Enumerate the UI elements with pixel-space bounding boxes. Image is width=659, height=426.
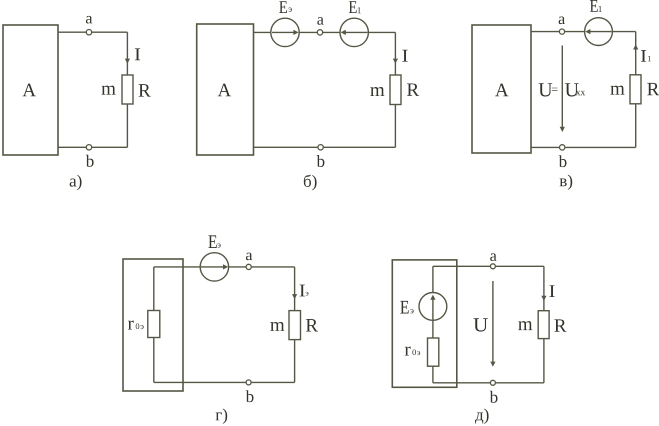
label E_e: [279, 1, 287, 13]
resistor R (multiplied by m): [289, 311, 301, 340]
label E_e subscript: [410, 309, 413, 313]
label r_0e subscript e: [141, 325, 144, 329]
wire: resistor to bottom corner: [126, 104, 128, 147]
label Uxx subscript: [576, 91, 585, 95]
terminal b: [560, 145, 565, 150]
wire: top: [254, 31, 396, 33]
emf arrow of E_e (points up): [432, 299, 434, 320]
label I: [402, 50, 407, 62]
resistor R (multiplied by m): [390, 75, 401, 105]
wire: right branch down: [543, 266, 545, 310]
terminal a: [246, 264, 251, 269]
wire: bottom: [154, 381, 295, 383]
label E_1: [590, 0, 598, 12]
label r_0e subscript e: [417, 351, 420, 355]
voltage arrow U (a to b, points down): [492, 281, 494, 363]
emf arrow of E_1 (points left): [345, 31, 368, 33]
label I_e subscript: [306, 292, 309, 296]
terminal b: [86, 145, 91, 150]
current arrow I_e: [292, 294, 297, 299]
wire: right branch down: [294, 267, 296, 311]
terminal a: [490, 264, 495, 269]
label R: [139, 84, 151, 96]
caption b): [304, 175, 317, 191]
label I_e: [300, 285, 305, 297]
wire: right branch down to resistor: [126, 32, 128, 75]
current arrow I: [393, 59, 398, 64]
box A: active two-terminal network (circuit v): [472, 25, 531, 153]
wire: bottom: [433, 382, 544, 384]
wire: resistor to bottom corner: [543, 339, 545, 383]
source E_1 (circle): [585, 18, 613, 46]
wire: bottom: [531, 146, 636, 148]
terminal b: [490, 380, 495, 385]
node b label: [86, 155, 94, 167]
wire: right branch: [635, 32, 637, 75]
emf arrow of E_e (points right): [272, 31, 294, 33]
label A: [495, 84, 508, 97]
terminal a: [86, 30, 91, 35]
resistor R (multiplied by m): [538, 311, 549, 339]
label E_e subscript: [217, 243, 220, 247]
wire: internal branch vertical: [432, 266, 434, 383]
node a label: [559, 16, 565, 24]
wire: top: [531, 31, 636, 33]
node a label: [86, 16, 92, 24]
wire: resistor to bottom corner: [394, 105, 396, 148]
wire: top, box to corner: [58, 31, 127, 33]
resistor R (multiplied by m): [630, 75, 641, 104]
node b label: [246, 390, 254, 402]
label r_0e: [128, 321, 134, 330]
source E_e (circle): [271, 18, 299, 46]
resistor R (multiplied by m): [122, 75, 133, 104]
wire: top: [433, 265, 544, 267]
current arrow I: [541, 296, 546, 301]
label m: [610, 86, 624, 95]
emf arrow of E_1 (points left): [590, 31, 612, 33]
label R: [554, 319, 566, 331]
label R: [407, 83, 419, 95]
label m: [518, 321, 532, 330]
label R: [647, 83, 659, 95]
terminal a: [317, 30, 322, 35]
label I: [549, 285, 554, 297]
box A: active two-terminal network (circuit b): [197, 24, 254, 155]
wire: resistor to bottom corner: [294, 340, 296, 383]
emf arrow of E_e (points right): [201, 266, 224, 268]
box: equivalent generator outline (circuit d): [392, 260, 457, 387]
label A: [218, 84, 231, 97]
label E_1 subscript: [358, 7, 361, 13]
wire: right branch down: [394, 32, 396, 75]
label r_0e subscript 0: [136, 323, 140, 329]
terminal b: [246, 380, 251, 385]
wire: internal branch vertical: [153, 267, 155, 383]
current arrow I: [125, 59, 130, 64]
current arrow I_1 (points up): [633, 44, 638, 49]
wire: top: [154, 266, 295, 268]
source E_e (circle): [419, 293, 447, 321]
source E_1 (circle): [340, 18, 368, 46]
resistor r_0e (internal resistance): [428, 338, 439, 366]
label m: [370, 87, 384, 96]
node a label: [246, 253, 252, 261]
label E_e: [400, 301, 408, 314]
wire: resistor to bottom corner: [635, 104, 637, 148]
label r_0e: [405, 347, 411, 356]
node b label: [559, 155, 567, 167]
label E_e: [208, 235, 216, 248]
label r_0e subscript 0: [412, 349, 416, 355]
label I_1 subscript: [648, 56, 651, 61]
wire: bottom: [254, 146, 396, 148]
label U: [474, 318, 488, 331]
label E_1 subscript: [599, 6, 602, 12]
node b label: [490, 391, 498, 403]
label A: [23, 84, 36, 97]
label m: [102, 86, 116, 95]
box: equivalent generator outline (circuit g): [123, 259, 183, 391]
wire: bottom, corner to box: [58, 146, 127, 148]
label I: [135, 48, 140, 60]
source E_e (circle): [200, 253, 228, 281]
caption a): [70, 175, 82, 190]
label E_1: [349, 1, 357, 13]
label E_e subscript: [289, 8, 292, 12]
label m: [270, 322, 284, 331]
label R: [306, 319, 318, 331]
node a label: [490, 253, 496, 261]
label Uxx: [565, 83, 579, 96]
resistor r_0e (internal resistance): [148, 311, 160, 338]
label U= equals sign: [552, 88, 558, 91]
caption d): [475, 409, 489, 424]
label U=: [539, 83, 553, 96]
caption g): [216, 409, 228, 424]
terminal a: [559, 29, 564, 34]
voltage arrow U (a to b, points down): [561, 46, 563, 129]
box A: active two-terminal network (circuit a): [3, 25, 58, 155]
label I_1: [641, 50, 646, 62]
terminal b: [318, 145, 323, 150]
caption v): [560, 175, 573, 190]
node a label: [317, 17, 323, 25]
node b label: [317, 155, 325, 167]
